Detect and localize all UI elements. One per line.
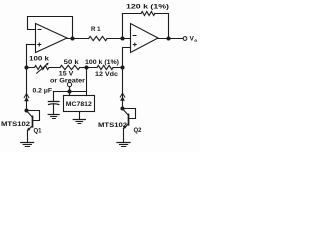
transistor Q1: [24, 108, 28, 112]
wire 15V horizontal: [54, 91, 87, 93]
wire 100k to right rail: [113, 67, 122, 69]
svg-text:o: o: [194, 38, 197, 43]
wire U1 feedback loop: [28, 17, 73, 39]
wire 15V terminal down: [69, 87, 71, 92]
Q1 base bar: [32, 116, 34, 126]
Q2 emitter: [124, 124, 129, 129]
arrow left rail: [24, 94, 29, 98]
capacitor C 0.2uF: [53, 92, 55, 102]
potentiometer wiper arrow: [37, 64, 47, 73]
node 15V junction: [67, 89, 71, 93]
svg-text:12 Vdc: 12 Vdc: [95, 71, 119, 78]
wire U2 non-inverting input: [123, 48, 131, 68]
svg-text:100 k (1%): 100 k (1%): [85, 59, 119, 66]
svg-text:Q2: Q2: [134, 127, 143, 134]
U2 inverting input mark: [133, 35, 136, 37]
Q2 base loop wire: [123, 109, 136, 119]
svg-text:MTS102: MTS102: [98, 122, 128, 129]
Q2 base bar: [128, 114, 130, 124]
Q2 collector: [123, 109, 129, 116]
node pot junction: [24, 65, 28, 69]
U2 non-inverting input mark: [133, 43, 136, 46]
transistor Q2: [120, 106, 124, 110]
ground under Q2: [117, 142, 130, 144]
svg-text:MC7812: MC7812: [66, 101, 93, 108]
svg-text:100 k: 100 k: [29, 56, 50, 63]
wire left rail: [26, 45, 28, 111]
op-amp U2: [131, 24, 159, 53]
wire 50k to 100k: [80, 67, 97, 69]
terminal Vo: [183, 37, 187, 41]
node U1 output: [70, 36, 74, 40]
wire U1 output to R1: [67, 38, 89, 40]
Q1 base loop wire: [27, 111, 40, 121]
wire U2 output: [158, 38, 183, 40]
resistor R1: [89, 36, 107, 40]
wire 120k to output: [155, 14, 169, 39]
svg-text:R 1: R 1: [91, 26, 101, 33]
svg-text:Q1: Q1: [34, 128, 43, 135]
op-amp U1: [36, 24, 68, 53]
wire U2 feedback up: [123, 14, 142, 39]
node U2 output: [166, 36, 170, 40]
node right rail top: [120, 65, 124, 69]
U1 non-inverting input mark: [38, 43, 41, 46]
wire Q2 emitter to ground: [123, 128, 125, 142]
regulator MC7812 box: [64, 96, 95, 112]
node U2 inverting input: [120, 36, 124, 40]
U1 inverting input mark: [38, 29, 41, 31]
terminal 15V input: [67, 82, 71, 86]
node 12Vdc junction: [84, 65, 88, 69]
resistor 50k: [60, 65, 80, 69]
ground under regulator: [79, 112, 81, 120]
wire R1 to U2 inverting input: [107, 38, 131, 40]
Q1 collector: [27, 111, 33, 118]
wire Q1 emitter to ground: [27, 130, 29, 142]
svg-text:50 k: 50 k: [64, 59, 80, 66]
ground under Q1: [21, 142, 34, 144]
resistor 100k 1%: [97, 65, 113, 69]
wire regulator input stub: [69, 92, 71, 96]
resistor 120k feedback: [141, 12, 155, 16]
ground under capacitor: [48, 114, 59, 116]
wire right rail: [122, 68, 124, 109]
wire U1 non-inverting input: [27, 44, 36, 46]
potentiometer 100k: [27, 66, 61, 70]
wire regulator output rail: [86, 68, 88, 96]
svg-text:120 k (1%): 120 k (1%): [126, 4, 169, 11]
arrow right rail: [120, 93, 125, 97]
svg-text:MTS102: MTS102: [1, 121, 31, 128]
Q1 emitter: [28, 126, 33, 131]
svg-text:or Greater: or Greater: [50, 77, 86, 84]
svg-text:0.2 μF: 0.2 μF: [33, 88, 53, 95]
